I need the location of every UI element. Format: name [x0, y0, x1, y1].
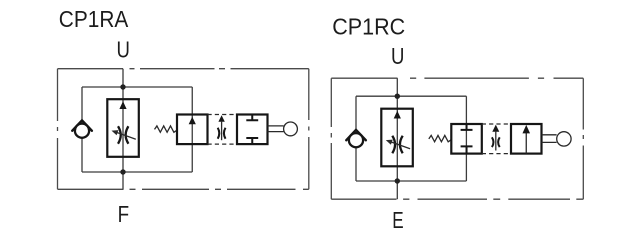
compensator valve box (flow position) — [177, 115, 208, 145]
wire: pilot line through cut-off valve — [465, 96, 467, 181]
wire: pilot line through compensator — [191, 87, 193, 172]
throttle arcs in regulator — [392, 136, 402, 153]
enclosure border (dash-dot) — [58, 69, 309, 190]
flow regulator valve body — [381, 109, 413, 167]
junction node (top) — [120, 84, 125, 89]
cut-off valve box blocked position — [451, 124, 482, 154]
wire: main line U-E — [396, 78, 398, 199]
wire: upper branch — [356, 95, 466, 97]
spring — [155, 126, 178, 132]
check valve (ball and seat) — [346, 130, 366, 147]
plunger stem — [268, 126, 284, 132]
enclosure border (dash-dot) — [331, 78, 583, 199]
roller circle — [557, 132, 571, 146]
transition throttle arrow — [218, 115, 224, 122]
valve box blocked position — [237, 115, 268, 145]
svg-text:E: E — [392, 207, 403, 233]
wire: upper branch — [82, 86, 192, 88]
junction node (bottom) — [120, 169, 125, 174]
dashed transition section — [482, 124, 511, 154]
junction node (bottom) — [395, 178, 400, 183]
blocked port T (top) — [461, 124, 473, 130]
svg-text:F: F — [118, 201, 130, 227]
wire: main line U-F — [122, 69, 124, 190]
transition throttle arcs — [218, 128, 226, 139]
wire: lower branch — [82, 171, 192, 173]
wire: check-valve branch — [355, 96, 357, 181]
spring — [429, 135, 452, 141]
throttle arcs in regulator — [118, 126, 128, 143]
roller circle — [284, 122, 298, 136]
arrow in compensator — [189, 117, 196, 125]
svg-text:U: U — [117, 37, 130, 63]
flow regulator valve body — [107, 99, 139, 157]
blocked port T (bottom) — [246, 138, 258, 144]
adjustment arrow through throttle — [115, 132, 136, 139]
valve box flow position — [511, 124, 542, 154]
flow arrow in regulator — [394, 111, 401, 119]
svg-text:CP1RC: CP1RC — [332, 14, 405, 40]
arrow in valve box — [525, 133, 527, 154]
svg-text:U: U — [391, 43, 404, 69]
flow arrow in regulator — [119, 101, 126, 109]
wire: lower branch — [356, 180, 466, 182]
junction node (top) — [395, 94, 400, 99]
plunger stem — [542, 135, 557, 143]
blocked port T (top) — [246, 115, 258, 121]
transition throttle arcs — [492, 137, 500, 147]
check valve (ball and seat) — [72, 120, 92, 137]
wire: check-valve branch — [81, 87, 83, 172]
dashed transition section — [208, 115, 238, 145]
adjustment arrow through throttle — [389, 141, 410, 148]
transition throttle arrow — [492, 125, 499, 132]
blocked port T (bottom) — [461, 146, 473, 153]
svg-text:CP1RA: CP1RA — [59, 6, 129, 32]
